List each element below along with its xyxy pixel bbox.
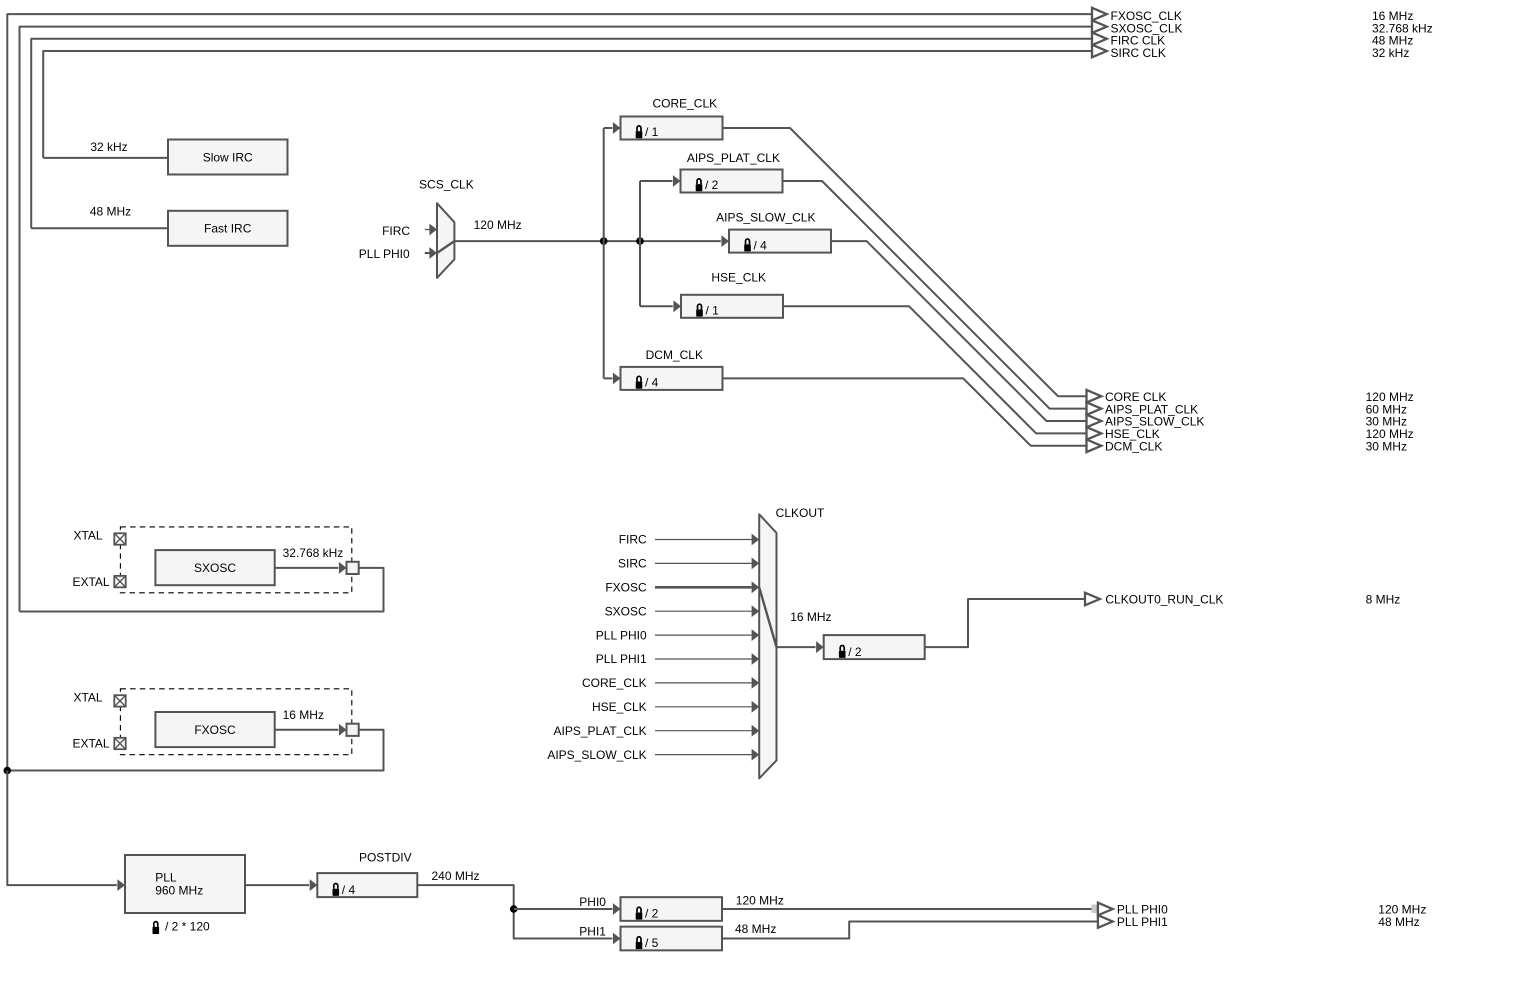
svg-text:32.768 kHz: 32.768 kHz [283,546,344,560]
wire trunk A (CORE/DCM) [603,128,605,378]
svg-text:AIPS_SLOW_CLK: AIPS_SLOW_CLK [547,748,646,762]
wire trunk to PLL input [7,771,117,886]
wire PLL PHI1 into CLKOUT mux [655,658,752,660]
svg-text:SIRC: SIRC [618,557,647,571]
svg-text:EXTAL: EXTAL [72,575,109,589]
svg-text:AIPS_SLOW_CLK: AIPS_SLOW_CLK [716,210,815,224]
wire AIPS_PLAT_CLK into CLKOUT mux [655,730,752,732]
pin arrow CORE_CLK CLKOUT input [752,677,760,689]
pin arrow SXOSC output [339,562,347,574]
wire PHI0 output [722,908,1098,910]
pin XTAL FXOSC [114,695,125,706]
svg-text:/ 2: / 2 [848,645,862,659]
port SXOSC boundary [347,562,359,574]
svg-text:16 MHz: 16 MHz [283,708,324,722]
pin arrow into AIPS_SLOW divider [721,235,729,247]
svg-text:PHI1: PHI1 [579,925,606,939]
svg-text:DCM_CLK: DCM_CLK [1105,440,1162,454]
dashed boundary SXOSC [120,527,351,593]
oscillator FXOSC [155,712,274,747]
wire FXOSC return to trunk [7,730,383,771]
block PLL 960 MHz [125,855,245,913]
block Slow IRC [168,140,288,175]
wire FIRC into CLKOUT mux [655,539,752,541]
wire PLL PHI0 into CLKOUT mux [655,634,752,636]
pin arrow FXOSC CLKOUT input [752,581,760,593]
svg-text:32 kHz: 32 kHz [90,140,127,154]
mux CLKOUT [759,514,776,778]
svg-text:CLKOUT0_RUN_CLK: CLKOUT0_RUN_CLK [1105,593,1223,607]
pin XTAL SXOSC [114,533,125,544]
wire PLL to POSTDIV [245,884,309,886]
svg-text:240 MHz: 240 MHz [432,869,480,883]
wire Slow IRC to SIRC trunk [43,157,168,159]
pin EXTAL FXOSC [114,738,125,749]
divider DCM_CLK / 4 [621,367,723,390]
svg-text:16 MHz: 16 MHz [790,610,831,624]
wire CORE_CLK into CLKOUT mux [655,682,752,684]
wire trunk A to DCM divider [604,377,613,379]
svg-text:/ 4: / 4 [754,238,768,252]
pin arrow PLL PHI0 CLKOUT input [752,629,760,641]
wire SXOSC output [275,567,339,569]
wire DCM_CLK to output [723,378,1087,445]
svg-text:48 MHz: 48 MHz [90,204,131,218]
pin arrow SXOSC CLKOUT input [752,605,760,617]
wire trunk A to CORE divider [604,127,613,129]
wire HSE_CLK into CLKOUT mux [655,706,752,708]
wire FXOSC into CLKOUT mux [655,586,752,589]
wire POSTDIV to PHI split [417,885,612,938]
wire FXOSC_CLK trunk (FXOSC return to top output) [7,14,1092,770]
block Fast IRC [168,211,288,246]
svg-text:CORE_CLK: CORE_CLK [652,97,717,111]
svg-text:/ 2: / 2 [705,178,719,192]
oscillator SXOSC [155,550,274,585]
junction FXOSC return / PLL feed [4,767,12,775]
svg-text:SCS_CLK: SCS_CLK [419,177,474,191]
svg-text:XTAL: XTAL [73,529,102,543]
svg-text:PLL PHI0: PLL PHI0 [596,628,647,642]
divider AIPS_SLOW_CLK / 4 [729,230,831,253]
svg-text:HSE_CLK: HSE_CLK [592,700,647,714]
svg-text:120 MHz: 120 MHz [736,894,784,908]
pin arrow SIRC CLKOUT input [752,558,760,570]
svg-text:EXTAL: EXTAL [72,737,109,751]
output port SIRC CLK [1092,45,1107,58]
divider CORE_CLK / 1 [621,117,723,140]
svg-text:/ 4: / 4 [645,376,659,390]
svg-text:Fast IRC: Fast IRC [204,222,252,236]
wire AIPS_PLAT_CLK to output [783,181,1087,409]
output port AIPS_SLOW_CLK [1087,415,1102,428]
wire FXOSC output [275,729,339,731]
wire CLKOUT mux to divider [777,646,816,648]
pin arrow FIRC CLKOUT input [752,534,760,546]
pin arrow FXOSC output [339,724,347,736]
wire PLL PHI0 into SCS mux [425,252,430,254]
pin arrow into AIPS_PLAT divider [673,175,681,187]
junction SCS bus / trunk B [636,237,644,245]
divider PHI1 / 5 [621,927,723,951]
svg-text:FIRC: FIRC [382,224,410,238]
output port DCM_CLK [1087,440,1102,453]
wire Fast IRC to FIRC trunk [31,227,168,229]
svg-text:/ 5: / 5 [645,936,659,950]
svg-text:PLL PHI1: PLL PHI1 [1117,915,1168,929]
svg-text:SXOSC: SXOSC [194,561,236,575]
endpoint marker PHI0 wire [1092,905,1101,914]
mux SCS_CLK selected path [437,241,454,253]
junction SCS bus / trunk A [600,237,608,245]
wire CLKOUT0_RUN_CLK to output [925,599,1085,647]
wire CORE_CLK to output [723,128,1087,396]
svg-text:PHI0: PHI0 [579,895,606,909]
svg-text:PLL PHI0: PLL PHI0 [359,247,410,261]
output port AIPS_PLAT_CLK [1087,402,1102,415]
dashed boundary FXOSC [120,689,351,755]
wire trunk B (AIPS_PLAT/HSE) [639,181,641,306]
pin arrow PLL PHI0 [429,247,437,259]
svg-text:POSTDIV: POSTDIV [359,850,412,864]
pin arrow into PLL [117,879,125,891]
pin arrow AIPS_SLOW_CLK CLKOUT input [752,749,760,761]
output port CORE CLK [1087,390,1102,403]
wire SIRC into CLKOUT mux [655,562,752,564]
output port FIRC CLK [1092,33,1107,46]
svg-text:/ 1: / 1 [645,125,659,139]
output port PLL PHI0 [1098,903,1113,916]
svg-text:CLKOUT: CLKOUT [776,506,825,520]
svg-text:8 MHz: 8 MHz [1366,593,1401,607]
pin arrow into POSTDIV [310,879,318,891]
junction PHI0 branch [510,905,518,913]
svg-text:CORE_CLK: CORE_CLK [582,676,647,690]
svg-text:HSE_CLK: HSE_CLK [711,270,766,284]
pin arrow into CORE divider [613,122,621,134]
output port SXOSC_CLK [1092,20,1107,33]
pin arrow into DCM divider [613,373,621,385]
svg-text:AIPS_PLAT_CLK: AIPS_PLAT_CLK [687,151,780,165]
wire SXOSC return to trunk [20,568,384,612]
divider POSTDIV / 4 [317,873,417,897]
svg-text:FIRC: FIRC [619,533,647,547]
svg-text:SXOSC: SXOSC [605,604,647,618]
wire SXOSC into CLKOUT mux [655,610,752,612]
output port FXOSC_CLK [1092,8,1107,21]
svg-text:48 MHz: 48 MHz [1378,915,1419,929]
pin arrow FIRC [429,224,437,236]
svg-text:AIPS_PLAT_CLK: AIPS_PLAT_CLK [554,724,647,738]
wire trunk B to HSE divider [640,305,673,307]
svg-text:/ 1: / 1 [706,304,720,318]
port FXOSC boundary [347,724,359,736]
svg-text:120 MHz: 120 MHz [474,218,522,232]
wire FIRC into SCS mux [425,229,430,231]
svg-text:/ 4: / 4 [342,883,356,897]
pin arrow into PHI1 divider [613,933,621,945]
wire SXOSC_CLK trunk [20,27,1093,612]
wire trunk B to AIPS_PLAT divider [640,180,672,182]
svg-text:960 MHz: 960 MHz [155,883,203,897]
pin arrow HSE_CLK CLKOUT input [752,701,760,713]
svg-text:32 kHz: 32 kHz [1372,46,1409,60]
svg-text:/ 2: / 2 [645,907,659,921]
wire SCS_CLK 120MHz bus [454,240,720,242]
pin arrow into PHI0 divider [613,903,621,915]
svg-text:Slow IRC: Slow IRC [203,150,253,164]
pin arrow into HSE divider [673,300,681,312]
pin arrow AIPS_PLAT_CLK CLKOUT input [752,725,760,737]
svg-text:30 MHz: 30 MHz [1366,440,1407,454]
wire PHI0 branch [514,908,613,910]
divider AIPS_PLAT_CLK / 2 [681,170,783,193]
svg-text:FXOSC: FXOSC [605,581,647,595]
wire SIRC CLK trunk [43,51,1092,158]
mux CLKOUT selected path (FXOSC) [759,587,776,647]
divider PHI0 / 2 [621,897,723,921]
lock / 2 * 120 PLL setting [153,927,160,934]
wire HSE_CLK to output [783,306,1087,433]
svg-text:SIRC CLK: SIRC CLK [1111,46,1166,60]
divider CLKOUT / 2 [824,635,925,659]
pin arrow PLL PHI1 CLKOUT input [752,653,760,665]
divider HSE_CLK / 1 [681,295,783,318]
wire PHI1 output [722,922,1098,939]
svg-text:PLL PHI1: PLL PHI1 [596,652,647,666]
svg-text:FXOSC: FXOSC [194,723,236,737]
output port PLL PHI1 [1098,915,1113,928]
svg-text:/ 2 * 120: / 2 * 120 [165,920,210,934]
wire AIPS_SLOW_CLK to output [831,241,1087,421]
pin arrow into CLKOUT divider [816,641,824,653]
wire FIRC CLK trunk [31,39,1092,229]
svg-text:DCM_CLK: DCM_CLK [646,348,703,362]
output port CLKOUT0_RUN_CLK [1085,593,1100,606]
pin EXTAL SXOSC [114,576,125,587]
mux SCS_CLK [437,203,454,278]
wire AIPS_SLOW_CLK into CLKOUT mux [655,754,752,756]
svg-text:XTAL: XTAL [73,690,102,704]
svg-text:48 MHz: 48 MHz [735,922,776,936]
output port HSE_CLK [1087,427,1102,440]
